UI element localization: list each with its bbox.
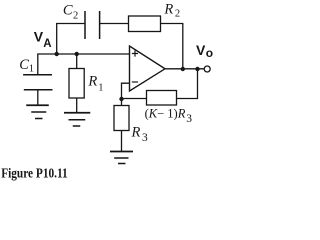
wire: node to R1: [76, 54, 78, 69]
label VA: [34, 28, 52, 50]
svg-text:2: 2: [175, 8, 180, 19]
capacitor C2: [85, 11, 100, 39]
svg-text:V: V: [196, 42, 206, 58]
node VA junction: [55, 52, 59, 56]
svg-text:(K− 1)R: (K− 1)R: [145, 107, 186, 121]
node: output junction to feedback: [195, 67, 199, 71]
svg-text:Figure P10.11: Figure P10.11: [1, 166, 68, 181]
svg-text:R: R: [87, 73, 97, 89]
svg-text:1: 1: [29, 63, 34, 74]
svg-text:2: 2: [73, 10, 78, 21]
wire: branch up from node VA to C2: [57, 24, 85, 55]
resistor R3: [114, 106, 129, 131]
svg-text:3: 3: [186, 113, 192, 125]
svg-text:C: C: [63, 3, 73, 19]
wire: C1 to ground: [37, 90, 39, 106]
svg-text:3: 3: [142, 132, 148, 144]
resistor R1: [69, 69, 84, 99]
svg-text:R: R: [131, 125, 141, 141]
node: feedback junction: [119, 97, 123, 101]
ground (below R3): [110, 151, 133, 153]
label Vo: [196, 42, 213, 60]
svg-text:V: V: [34, 28, 44, 44]
label R3: [131, 125, 149, 144]
wire: C2 right plate to R2: [100, 23, 129, 25]
wire: inverting input stub down to feedback node: [122, 83, 130, 99]
svg-text:1: 1: [98, 83, 103, 94]
caption Figure P10.11: [1, 166, 68, 181]
label C2: [63, 3, 78, 22]
wire: op-amp output to terminal: [165, 68, 204, 70]
resistor (K-1)R3: [147, 91, 177, 106]
ground (below R1): [64, 112, 90, 114]
svg-text:R: R: [163, 1, 173, 17]
label (K-1)R3: [145, 107, 193, 125]
wire: R3 to ground: [121, 131, 123, 152]
wire: C1 riser and main horizontal wire to op-amp + input: [38, 54, 130, 75]
terminal Vo: [204, 66, 210, 72]
resistor R2: [129, 16, 161, 32]
op-amp U1: [130, 46, 166, 91]
wire: R1 to ground: [76, 98, 78, 113]
capacitor C1: [23, 75, 52, 90]
label R2: [163, 1, 180, 19]
ground (below C1): [26, 104, 49, 106]
node R1 junction: [75, 52, 79, 56]
node: output junction to R2: [181, 67, 185, 71]
label R1: [87, 73, 103, 93]
svg-text:o: o: [206, 46, 213, 60]
svg-text:A: A: [43, 38, 51, 50]
wire: feedback horizontal run and riser to output: [122, 69, 198, 99]
label C1: [19, 57, 34, 75]
wire: feedback node down to R3: [121, 99, 123, 106]
wire: R2 to output node: [161, 24, 183, 70]
